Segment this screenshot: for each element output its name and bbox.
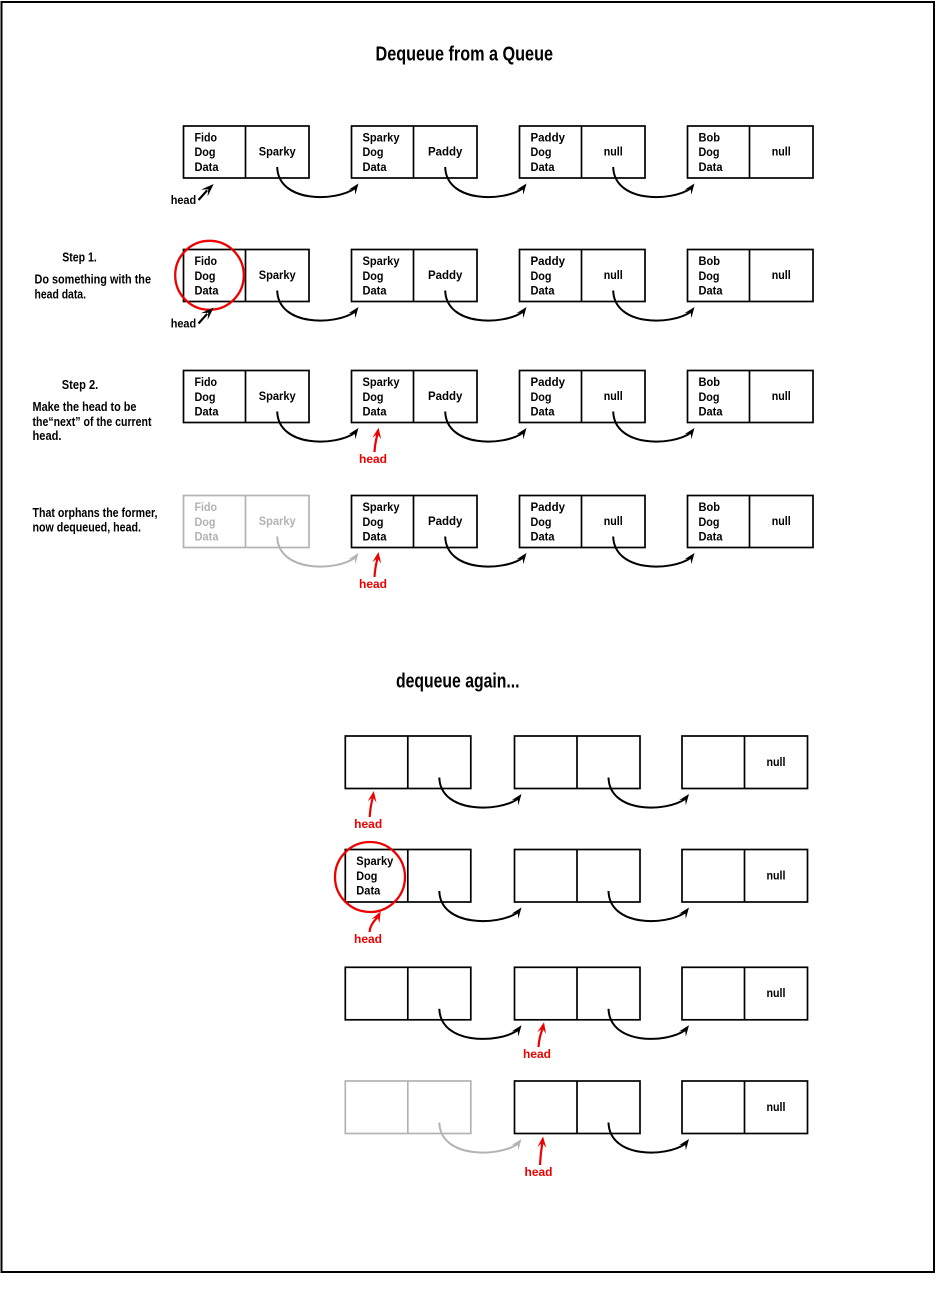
arrow row7 b2 to b3 (609, 1009, 690, 1039)
svg-text:null: null (767, 988, 786, 1000)
svg-text:Dequeue from a Queue: Dequeue from a Queue (376, 44, 554, 66)
node row1-n2 data text "Sparky Dog Data" (363, 132, 401, 174)
svg-text:null: null (767, 757, 786, 769)
svg-text:null: null (772, 270, 791, 282)
svg-text:Data: Data (699, 532, 724, 544)
svg-text:Data: Data (356, 886, 381, 898)
node row2-n3 data text "Paddy Dog Data" (531, 256, 566, 298)
arrow row8 b2 to b3 (609, 1123, 690, 1153)
svg-text:That orphans the former,: That orphans the former, (33, 506, 158, 520)
arrow row2 n1 to n2 (277, 291, 358, 321)
node row3-n3 pointer text "null" (604, 391, 623, 403)
svg-text:Step 2.: Step 2. (62, 378, 99, 392)
node row4-n2 pointer text "Paddy" (428, 516, 463, 528)
node row4-n3 box (520, 496, 646, 548)
svg-text:the“next” of the current: the“next” of the current (33, 415, 153, 429)
node row8-b3 box (682, 1081, 808, 1134)
node row5-b3 box (682, 736, 808, 789)
svg-text:Data: Data (531, 162, 556, 174)
arrow row6 b2 to b3 (609, 891, 690, 921)
svg-text:head: head (171, 195, 197, 207)
arrow row5 b2 to b3 (609, 778, 690, 808)
node row8-b3 pointer text "null" (767, 1102, 786, 1114)
red circle around row6 b1 data cell (335, 842, 405, 912)
arrow row3 n2 to n3 (445, 412, 526, 442)
arrow row4 n2 to n3 (445, 537, 526, 567)
svg-text:Data: Data (363, 532, 388, 544)
step 2 caption (33, 378, 153, 443)
svg-text:Fido: Fido (195, 132, 218, 144)
node row4-n3 pointer text "null" (604, 516, 623, 528)
caption: that orphans the former (33, 506, 158, 535)
svg-text:dequeue again...: dequeue again... (396, 671, 520, 693)
red head label row8 pointing at b2 data cell (525, 1137, 553, 1180)
svg-text:head: head (523, 1049, 551, 1061)
arrow row3 n3 to n4 (613, 412, 694, 442)
node row3-n4 box (688, 371, 814, 423)
svg-text:head data.: head data. (35, 288, 87, 302)
svg-text:null: null (772, 516, 791, 528)
svg-text:Bob: Bob (699, 502, 721, 514)
svg-text:Data: Data (363, 286, 388, 298)
node row4-n4 data text "Bob Dog Data" (699, 502, 724, 544)
svg-text:Sparky: Sparky (259, 391, 297, 403)
node row1-n3 box (520, 126, 646, 178)
node row2-n2 pointer text "Paddy" (428, 270, 463, 282)
arrow row1 n1 to n2 (277, 167, 358, 197)
svg-text:head: head (359, 454, 387, 466)
arrow row1 n3 to n4 (613, 167, 694, 197)
svg-text:Sparky: Sparky (363, 256, 401, 268)
node row7-b3 box (682, 967, 808, 1020)
svg-text:Fido: Fido (195, 502, 218, 514)
svg-text:head: head (359, 579, 387, 591)
svg-text:Paddy: Paddy (531, 502, 566, 514)
arrow row6 b1 to b2 (439, 891, 521, 921)
node row1-n3 pointer text "null" (604, 147, 623, 159)
node row4-n4 pointer text "null" (772, 516, 791, 528)
svg-text:null: null (604, 270, 623, 282)
svg-text:Fido: Fido (195, 377, 218, 389)
red head label row3 pointing at n2 data cell (359, 428, 387, 466)
svg-text:head: head (171, 318, 197, 330)
node row2-n4 pointer text "null" (772, 270, 791, 282)
svg-text:Data: Data (195, 286, 220, 298)
arrow row3 n1 to n2 (277, 412, 358, 442)
head label row1 (171, 184, 214, 207)
node row2-n4 box (688, 250, 814, 302)
svg-text:Dog: Dog (363, 147, 384, 159)
node row3-n3 data text "Paddy Dog Data" (531, 377, 566, 419)
arrow row2 n3 to n4 (613, 291, 694, 321)
svg-text:Data: Data (363, 162, 388, 174)
gray arrow row4 n1 to n2 (orphaned) (277, 537, 358, 567)
svg-text:Paddy: Paddy (531, 256, 566, 268)
node row5-b3 pointer text "null" (767, 757, 786, 769)
svg-text:Dog: Dog (699, 517, 720, 529)
node row5-b1 box (345, 736, 471, 789)
svg-text:Paddy: Paddy (428, 516, 463, 528)
node row2-n1 pointer text "Sparky" (259, 270, 297, 282)
svg-text:Data: Data (195, 162, 220, 174)
node row1-n2 box (352, 126, 478, 178)
node row3-n4 pointer text "null" (772, 391, 791, 403)
red head label row4 pointing at n2 data cell (359, 552, 387, 591)
node row5-b2 box (515, 736, 641, 789)
gray arrow row8 b1 to b2 (orphaned) (439, 1123, 521, 1153)
node row1-n4 box (688, 126, 814, 178)
svg-text:Dog: Dog (195, 517, 216, 529)
svg-text:Dog: Dog (363, 517, 384, 529)
node row1-n1 pointer text "Sparky" (259, 147, 297, 159)
svg-text:Do something with the: Do something with the (35, 273, 152, 287)
node row6-b3 box (682, 850, 808, 903)
node row4-n4 box (688, 496, 814, 548)
svg-text:head: head (354, 819, 382, 831)
node row2-n2 box (352, 250, 478, 302)
svg-text:null: null (767, 1102, 786, 1114)
svg-text:Data: Data (531, 532, 556, 544)
arrow row7 b1 to b2 (439, 1009, 521, 1039)
svg-text:Data: Data (531, 286, 556, 298)
svg-text:Data: Data (195, 532, 220, 544)
head label row2 (171, 308, 214, 331)
node row4-n1 pointer text "Sparky" (259, 516, 297, 528)
node row3-n1 box (184, 371, 310, 423)
node row1-n4 pointer text "null" (772, 147, 791, 159)
svg-text:Paddy: Paddy (428, 391, 463, 403)
svg-text:Paddy: Paddy (428, 147, 463, 159)
svg-text:null: null (772, 147, 791, 159)
svg-text:Paddy: Paddy (531, 377, 566, 389)
svg-text:Sparky: Sparky (363, 377, 401, 389)
red head label row6 pointing at circled cell (354, 912, 382, 947)
node row4-n2 data text "Sparky Dog Data" (363, 502, 401, 544)
svg-text:null: null (604, 147, 623, 159)
step 1 caption (35, 251, 152, 302)
svg-text:Dog: Dog (699, 392, 720, 404)
svg-text:head: head (525, 1167, 553, 1179)
svg-text:Dog: Dog (531, 271, 552, 283)
red circle around row2 n1 data cell (175, 241, 244, 310)
svg-text:head: head (354, 934, 382, 946)
node row3-n2 pointer text "Paddy" (428, 391, 463, 403)
node row8-b1 box (345, 1081, 471, 1134)
svg-text:Sparky: Sparky (259, 270, 297, 282)
node row1-n2 pointer text "Paddy" (428, 147, 463, 159)
node row6-b2 box (515, 850, 641, 903)
svg-text:Sparky: Sparky (259, 516, 297, 528)
node row6-b1 data text "Sparky Dog Data" (356, 856, 394, 898)
svg-text:Dog: Dog (699, 147, 720, 159)
svg-text:Sparky: Sparky (259, 147, 297, 159)
node row1-n1 box (184, 126, 310, 178)
node row4-n1 data text "Fido Dog Data" (195, 502, 220, 544)
svg-text:Paddy: Paddy (428, 270, 463, 282)
svg-text:Dog: Dog (531, 147, 552, 159)
node row4-n3 data text "Paddy Dog Data" (531, 502, 566, 544)
arrow row1 n2 to n3 (445, 167, 526, 197)
svg-text:Sparky: Sparky (356, 856, 394, 868)
node row2-n1 data text "Fido Dog Data" (195, 256, 220, 298)
arrow row2 n2 to n3 (445, 291, 526, 321)
node row6-b1 box (345, 850, 471, 903)
node row3-n3 box (520, 371, 646, 423)
svg-text:Data: Data (699, 407, 724, 419)
svg-text:now dequeued, head.: now dequeued, head. (33, 521, 142, 535)
svg-text:Bob: Bob (699, 132, 721, 144)
svg-text:null: null (767, 871, 786, 883)
svg-text:Dog: Dog (356, 871, 377, 883)
svg-text:Sparky: Sparky (363, 132, 401, 144)
svg-text:Dog: Dog (363, 271, 384, 283)
svg-text:Data: Data (699, 286, 724, 298)
node row3-n1 data text "Fido Dog Data" (195, 377, 220, 419)
arrow row4 n3 to n4 (613, 537, 694, 567)
node row2-n3 box (520, 250, 646, 302)
svg-text:Dog: Dog (531, 392, 552, 404)
svg-text:Data: Data (363, 407, 388, 419)
arrow row5 b1 to b2 (439, 778, 521, 808)
svg-text:Fido: Fido (195, 256, 218, 268)
svg-text:Data: Data (195, 407, 220, 419)
node row7-b2 box (515, 967, 641, 1020)
svg-text:null: null (604, 516, 623, 528)
node row4-n2 box (352, 496, 478, 548)
svg-text:Data: Data (699, 162, 724, 174)
node row4-n1 box (184, 496, 310, 548)
svg-text:Dog: Dog (195, 147, 216, 159)
svg-text:null: null (772, 391, 791, 403)
node row1-n3 data text "Paddy Dog Data" (531, 132, 566, 174)
svg-text:Bob: Bob (699, 256, 721, 268)
node row2-n3 pointer text "null" (604, 270, 623, 282)
node row2-n4 data text "Bob Dog Data" (699, 256, 724, 298)
node row7-b3 pointer text "null" (767, 988, 786, 1000)
red head label row7 pointing at b2 data cell (523, 1022, 551, 1061)
node row2-n2 data text "Sparky Dog Data" (363, 256, 401, 298)
node row3-n2 box (352, 371, 478, 423)
node row7-b1 box (345, 967, 471, 1020)
svg-text:Dog: Dog (699, 271, 720, 283)
svg-text:Sparky: Sparky (363, 502, 401, 514)
svg-text:Paddy: Paddy (531, 132, 566, 144)
svg-text:Dog: Dog (363, 392, 384, 404)
svg-text:head.: head. (33, 429, 62, 443)
svg-text:Dog: Dog (195, 392, 216, 404)
node row6-b3 pointer text "null" (767, 871, 786, 883)
node row8-b2 box (515, 1081, 641, 1134)
svg-text:Make the head to be: Make the head to be (33, 400, 137, 414)
svg-text:Dog: Dog (531, 517, 552, 529)
node row3-n1 pointer text "Sparky" (259, 391, 297, 403)
node row1-n4 data text "Bob Dog Data" (699, 132, 724, 174)
svg-text:null: null (604, 391, 623, 403)
red head label row5 pointing at b1 data cell (354, 791, 382, 831)
svg-text:Step 1.: Step 1. (62, 251, 97, 265)
node row3-n4 data text "Bob Dog Data" (699, 377, 724, 419)
node row3-n2 data text "Sparky Dog Data" (363, 377, 401, 419)
svg-text:Bob: Bob (699, 377, 721, 389)
svg-text:Data: Data (531, 407, 556, 419)
svg-text:Dog: Dog (195, 271, 216, 283)
node row2-n1 box (184, 250, 310, 302)
node row1-n1 data text "Fido Dog Data" (195, 132, 220, 174)
